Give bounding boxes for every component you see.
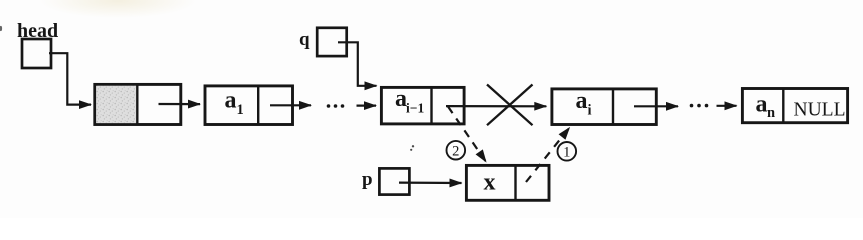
svg-text:i: i [588,103,592,119]
right ellipsis [690,104,709,108]
page background tint top-left [40,0,196,18]
label head [17,20,58,42]
node a_n with NULL [742,89,847,123]
node a1 [205,86,293,125]
circled number 2 [447,141,466,160]
wire first node to a1 [159,103,201,105]
circled number 1 [558,142,577,161]
wire a1 to left ellipsis [270,104,311,106]
svg-text:a: a [576,88,588,114]
svg-text:q: q [299,29,310,50]
wire p to node x [399,182,462,185]
wire a_i to right ellipsis [634,105,678,107]
left edge smudge [0,26,2,31]
p pointer box [379,168,409,194]
stray ink speckle [410,145,414,151]
dashed wire (2): a_(i-1) to node x [448,107,486,162]
q pointer box [317,28,347,56]
wire a_(i-1) to a_i (broken link) [446,105,546,107]
wire left ellipsis to a_(i-1) [357,104,377,106]
label q [299,29,310,50]
head pointer box [22,39,51,68]
svg-text:a: a [756,92,768,118]
svg-text:x: x [484,170,496,196]
first node (head node, shaded data cell) [95,84,181,124]
svg-text:a: a [225,88,237,114]
svg-text:p: p [362,169,373,190]
svg-text:1: 1 [563,145,570,161]
svg-text:NULL: NULL [794,100,846,121]
wire q to a_(i-1) [338,42,377,86]
svg-text:n: n [767,105,775,121]
cross X over broken link [487,85,533,126]
dashed wire (1): node x to a_i [526,128,570,182]
wire right ellipsis to a_n [717,105,737,107]
node x [466,165,549,200]
svg-text:i−1: i−1 [406,101,424,116]
svg-text:1: 1 [237,102,244,118]
label p [362,169,373,190]
left ellipsis [327,104,345,108]
node a_(i-1) [381,86,464,124]
wire head to first node [49,53,91,104]
node a_i [552,88,656,125]
svg-text:2: 2 [452,143,459,159]
